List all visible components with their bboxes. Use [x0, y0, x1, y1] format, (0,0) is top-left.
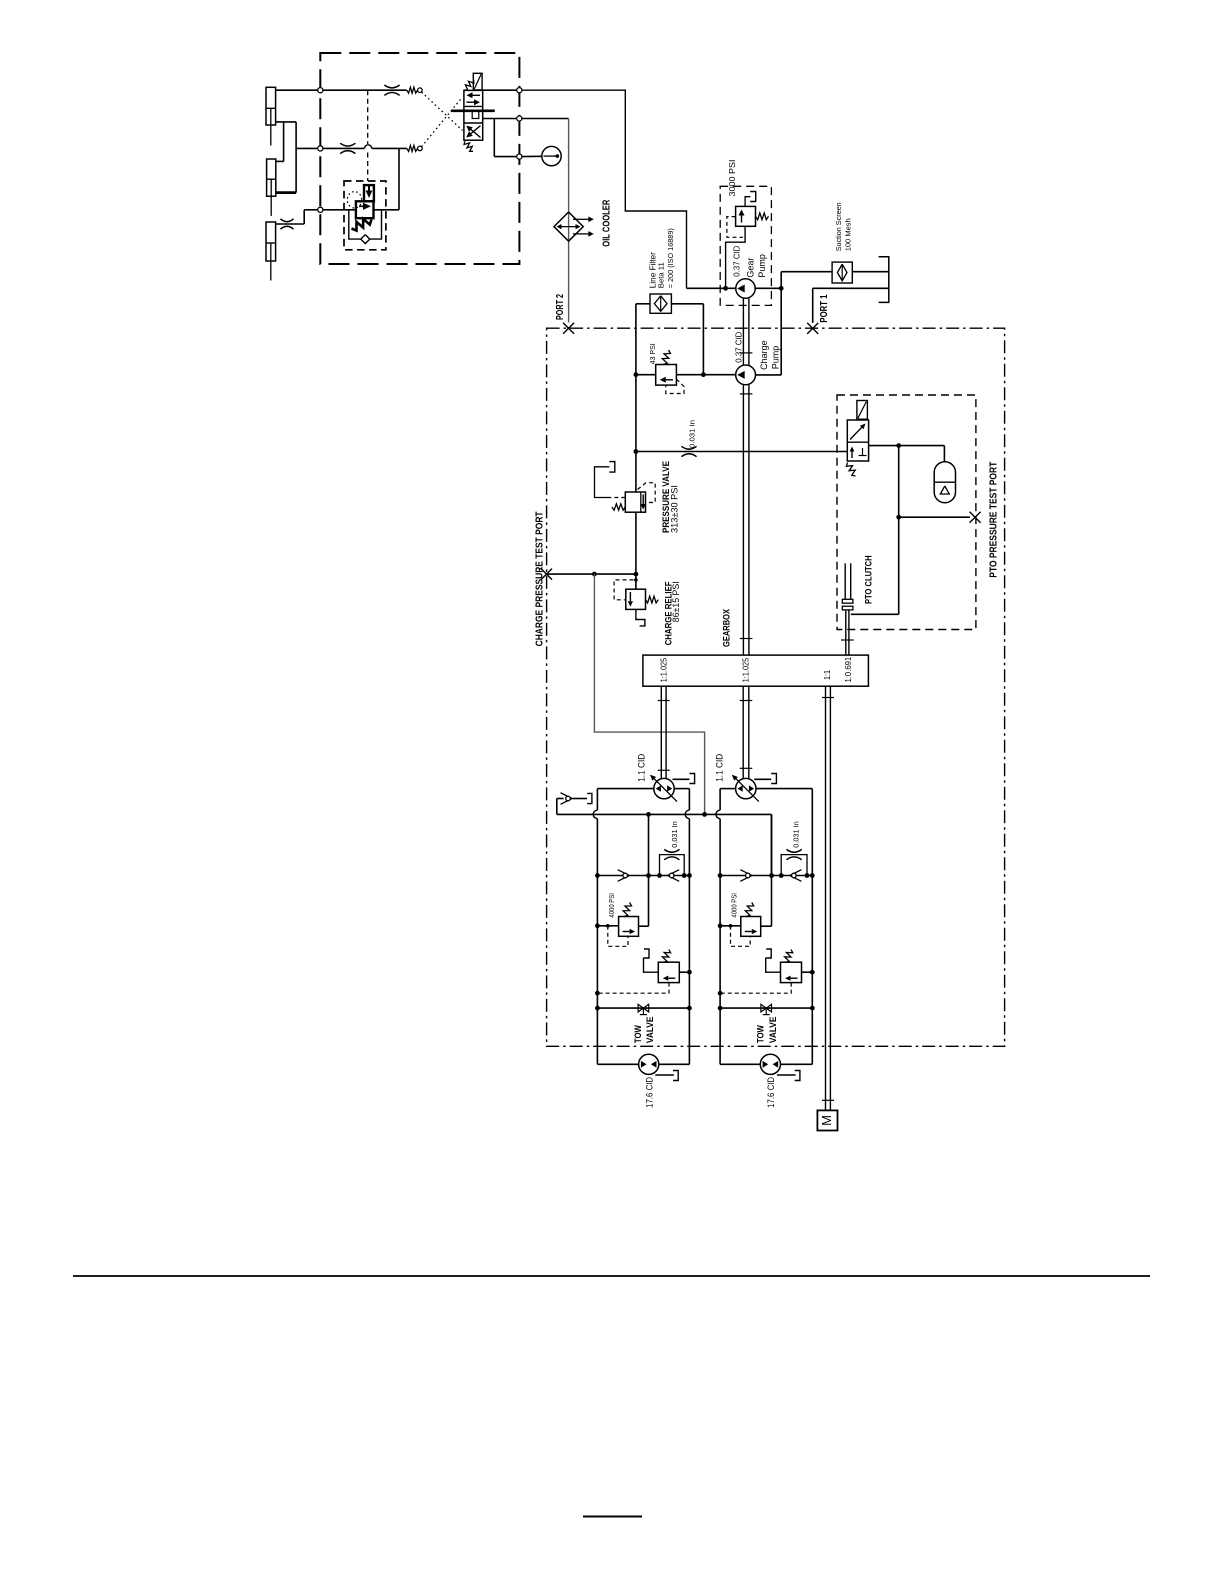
wire pto to clutch	[851, 446, 970, 615]
steering relief spring	[352, 219, 372, 231]
gear pump	[736, 279, 755, 298]
check valve row-left P1	[618, 870, 630, 882]
label CHARGE PRESSURE TEST PORT	[535, 511, 546, 646]
pressure gauge	[542, 146, 561, 165]
footer mark line	[583, 1516, 642, 1518]
pto solenoid valve	[846, 401, 868, 477]
check valve makeup	[561, 793, 573, 805]
label PRESSURE VALVE	[661, 461, 680, 533]
svg-text:PTO CLUTCH: PTO CLUTCH	[863, 555, 873, 604]
pressure valve pilot left	[595, 462, 626, 498]
wire cooler return line	[568, 119, 570, 323]
cylinder CYL1	[266, 87, 276, 145]
label 1.1 CID P2	[715, 753, 725, 781]
wire steering line1	[276, 89, 407, 91]
svg-text:0.031 In: 0.031 In	[670, 821, 679, 848]
pressure valve 313psi	[612, 492, 646, 512]
steering relief pilot dotted loop	[347, 192, 361, 208]
wire steering relief outlet	[374, 209, 400, 211]
svg-text:0.031 In: 0.031 In	[687, 420, 696, 448]
crossover diagonal 1	[422, 92, 463, 131]
steering valve actuator bar	[451, 110, 495, 113]
variable pump P2	[732, 775, 759, 802]
svg-text:Charge: Charge	[759, 340, 769, 370]
label GEARBOX	[722, 609, 732, 647]
label Line Filter	[649, 228, 676, 288]
wire valve to circle2	[483, 118, 517, 120]
wire pump left port P2	[716, 789, 736, 876]
pressure valve pilot right	[638, 483, 656, 503]
charge relief drain	[636, 609, 645, 626]
shaft pump1	[658, 686, 670, 779]
pump case drain P1	[673, 774, 695, 784]
wire cyl1 lower port	[276, 121, 297, 123]
steering relief upper valve	[364, 185, 374, 201]
wire pump right port P2	[756, 789, 812, 876]
label PTO PRESSURE TEST PORT	[988, 462, 999, 578]
svg-text:1:1.025: 1:1.025	[658, 657, 668, 682]
pump case drain P2	[754, 774, 776, 784]
steering unit dashed boundary	[320, 53, 519, 264]
svg-text:43 PSI: 43 PSI	[648, 343, 657, 364]
svg-text:VALVE: VALVE	[645, 1017, 655, 1044]
steering valve spring top	[464, 80, 474, 90]
svg-text:1:1: 1:1	[822, 670, 832, 680]
port connection circle 5	[517, 116, 522, 121]
label 17.6 CID P2	[766, 1076, 776, 1107]
shuttle valve P1	[597, 949, 689, 993]
svg-text:4000 PSI: 4000 PSI	[607, 893, 616, 918]
label suction screen	[834, 202, 853, 251]
svg-text:OIL COOLER: OIL COOLER	[601, 199, 612, 247]
svg-text:CHARGE PRESSURE TEST PORT: CHARGE PRESSURE TEST PORT	[535, 511, 546, 646]
wire tank check branch	[557, 799, 587, 815]
label orifice pto	[687, 420, 696, 448]
wire cyl2 upper port	[276, 160, 284, 162]
steering valve body	[464, 90, 483, 140]
steering relief main valve	[356, 201, 374, 218]
wire charge test line	[547, 572, 636, 577]
svg-text:GEARBOX: GEARBOX	[722, 609, 732, 647]
accumulator	[934, 462, 955, 503]
label PORT 1	[819, 294, 830, 322]
steering relief drain loop	[349, 210, 382, 239]
orifice pto supply	[681, 446, 696, 456]
svg-text:VALVE: VALVE	[768, 1017, 778, 1044]
pto test port star	[970, 512, 981, 523]
label 0.031 In P1	[670, 821, 679, 848]
cylinder CYL2	[267, 159, 276, 216]
horizontal rule	[73, 1275, 1150, 1277]
svg-text:PORT 1: PORT 1	[819, 294, 830, 322]
wire valve to circle1	[483, 89, 517, 91]
wire charge suction	[634, 372, 736, 377]
svg-text:17.6 CID: 17.6 CID	[644, 1076, 654, 1107]
orifice bypass P2	[781, 849, 807, 875]
orifice cyl3 line	[281, 219, 294, 229]
label 17.6 CID P1	[644, 1076, 654, 1107]
svg-text:Gear: Gear	[746, 258, 756, 278]
label 3000 PSI	[727, 160, 737, 197]
svg-text:0.37 CID: 0.37 CID	[731, 246, 741, 277]
shaft pump2	[740, 686, 753, 779]
wire vert A	[283, 122, 285, 161]
svg-text:313±30 PSI: 313±30 PSI	[670, 485, 680, 533]
port connection circle 6	[517, 154, 522, 159]
wire steering relief inlet	[304, 209, 356, 211]
svg-text:0.37 CID: 0.37 CID	[734, 332, 744, 363]
wire middle branch P2	[771, 814, 773, 926]
svg-text:= 200 (ISO 16889): = 200 (ISO 16889)	[666, 228, 675, 288]
check valve row-left P2	[740, 870, 752, 882]
check valve row-right P1	[668, 870, 680, 882]
wire vert B	[295, 122, 297, 193]
port 2 test star	[563, 323, 574, 334]
relief 4000psi P1	[597, 903, 648, 947]
wire circle1 to pump feed	[522, 90, 687, 288]
wire pump right port P1	[674, 789, 689, 876]
junction line2 to relief return	[398, 148, 400, 209]
check valve row-right P2	[790, 870, 802, 882]
motor case drain P1	[655, 1071, 678, 1081]
wire makeup row P2	[718, 873, 815, 878]
svg-text:1:1.025: 1:1.025	[740, 657, 750, 682]
label TOW VALVE P2	[756, 1017, 778, 1044]
wire steering line2	[296, 145, 407, 149]
steering valve arrows top box	[467, 92, 481, 105]
wire pump left port P1	[593, 789, 654, 876]
wire cyl2 lower port	[276, 191, 296, 194]
label TOW VALVE P1	[633, 1017, 655, 1044]
oil cooler	[554, 212, 594, 241]
port 1 test star	[807, 323, 818, 334]
svg-text:86±15 PSI: 86±15 PSI	[671, 581, 681, 622]
line filter	[650, 294, 671, 313]
relief 3000psi dashed box	[720, 186, 771, 305]
port connection circle 4	[517, 88, 522, 93]
svg-text:100 Mesh: 100 Mesh	[844, 218, 853, 251]
wire gear pump inlet	[687, 286, 736, 291]
orifice line1	[384, 85, 399, 95]
wire left rail P2	[718, 876, 761, 1065]
wire suction line	[781, 272, 832, 289]
relief valve 3000psi	[736, 206, 769, 226]
wire pto valve outlet	[869, 443, 945, 462]
svg-text:3000 PSI: 3000 PSI	[727, 160, 737, 197]
variable pump P1	[650, 775, 677, 802]
diamond in steering relief loop	[361, 235, 370, 244]
label CHARGE RELIEF	[663, 581, 681, 645]
orifice line2	[340, 143, 355, 153]
wire relief 3000psi outlet	[726, 226, 746, 288]
tank bracket makeup	[587, 793, 592, 803]
wire charge supply long line	[557, 812, 772, 876]
label PORT 2	[555, 294, 566, 320]
pilot dashed line to steering relief	[367, 90, 369, 181]
shaft deck drive	[822, 686, 834, 1110]
svg-text:1.1 CID: 1.1 CID	[715, 753, 725, 781]
wire charge outlet	[756, 288, 782, 375]
svg-text:1:0.691: 1:0.691	[843, 657, 853, 683]
svg-text:TOW: TOW	[633, 1025, 643, 1043]
wire test to charge loop	[594, 574, 704, 814]
pto dashed box	[837, 395, 976, 630]
svg-text:Beta 11: Beta 11	[657, 262, 666, 288]
wire circle2 to cooler	[522, 118, 569, 120]
label 4000 PSI P2	[730, 893, 739, 918]
svg-text:M: M	[819, 1115, 834, 1126]
steering relief dashed box	[344, 181, 386, 250]
hydro unit boundary	[547, 328, 1005, 1046]
crossover diagonal 2	[422, 97, 463, 147]
wire circle3 to gauge	[522, 155, 542, 157]
gearbox	[643, 655, 869, 686]
suction screen	[832, 262, 852, 283]
charge test port star	[541, 569, 552, 580]
tow valve P2	[720, 1004, 812, 1014]
shuttle valve P2	[720, 949, 812, 993]
wire right rail P2	[781, 876, 815, 1065]
label charge pump	[734, 332, 781, 370]
svg-text:1.1 CID: 1.1 CID	[637, 753, 647, 781]
cylinder CYL3	[266, 222, 276, 281]
relief 4000psi P2	[720, 903, 771, 947]
pto clutch	[841, 563, 854, 655]
shaft gear-charge pump	[740, 298, 753, 655]
wire middle branch P1	[648, 814, 650, 926]
label gear pump	[731, 246, 767, 278]
label 4000 PSI P1	[607, 893, 616, 918]
port connection circle 2	[318, 146, 323, 151]
port connection circle 1	[318, 88, 323, 93]
steering valve crossed arrows bottom box	[466, 126, 480, 138]
valve 43psi bypass	[656, 350, 684, 394]
label 0.031 In P2	[792, 821, 801, 848]
charge relief valve	[626, 589, 658, 609]
steering valve spring bottom	[464, 141, 473, 151]
wire right rail P1	[659, 876, 692, 1065]
label 43 PSI	[648, 343, 657, 364]
label OIL COOLER	[601, 199, 612, 247]
wheel motor P1	[639, 1054, 659, 1074]
wire left rail P1	[595, 876, 639, 1065]
tow valve P1	[597, 1004, 689, 1014]
svg-text:4000 PSI: 4000 PSI	[730, 893, 739, 918]
relief 3000psi drain	[745, 192, 756, 207]
svg-text:Pump: Pump	[770, 346, 780, 370]
motor case drain P2	[777, 1071, 800, 1081]
wheel motor P2	[760, 1054, 780, 1074]
charge relief pilot	[614, 580, 633, 600]
steering valve solenoid	[473, 73, 482, 90]
wire port1 to tank	[813, 288, 889, 323]
spring check line2	[407, 145, 422, 151]
svg-text:TOW: TOW	[756, 1025, 766, 1043]
svg-text:PORT 2: PORT 2	[555, 294, 566, 320]
steering valve center box detail	[472, 111, 479, 119]
relief 3000psi pilot	[727, 217, 743, 238]
svg-text:0.031 In: 0.031 In	[792, 821, 801, 848]
svg-text:Pump: Pump	[757, 254, 767, 278]
wire gear pump outlet	[755, 286, 783, 291]
gearbox ratio labels	[658, 657, 853, 683]
wire makeup row P1	[595, 873, 692, 878]
label PTO CLUTCH	[863, 555, 873, 604]
orifice bypass P1	[660, 849, 685, 875]
wire main center vertical	[634, 375, 639, 590]
svg-text:PTO PRESSURE TEST PORT: PTO PRESSURE TEST PORT	[988, 462, 999, 578]
svg-text:Suction Screen: Suction Screen	[834, 202, 843, 251]
svg-text:17.6 CID: 17.6 CID	[766, 1076, 776, 1107]
wire pto supply	[636, 451, 847, 453]
charge pump	[736, 365, 756, 385]
deck gearbox M	[817, 1110, 837, 1130]
label 1.1 CID P1	[637, 753, 647, 781]
port connection circle 3	[318, 207, 323, 212]
wire filter right	[671, 304, 703, 375]
wire circle3 branch	[494, 119, 516, 157]
wire filter left	[636, 304, 650, 375]
tank reservoir	[879, 257, 889, 303]
spring check line1	[407, 87, 422, 93]
wire screen to tank	[852, 271, 888, 273]
wire cyl3 port	[276, 210, 305, 224]
